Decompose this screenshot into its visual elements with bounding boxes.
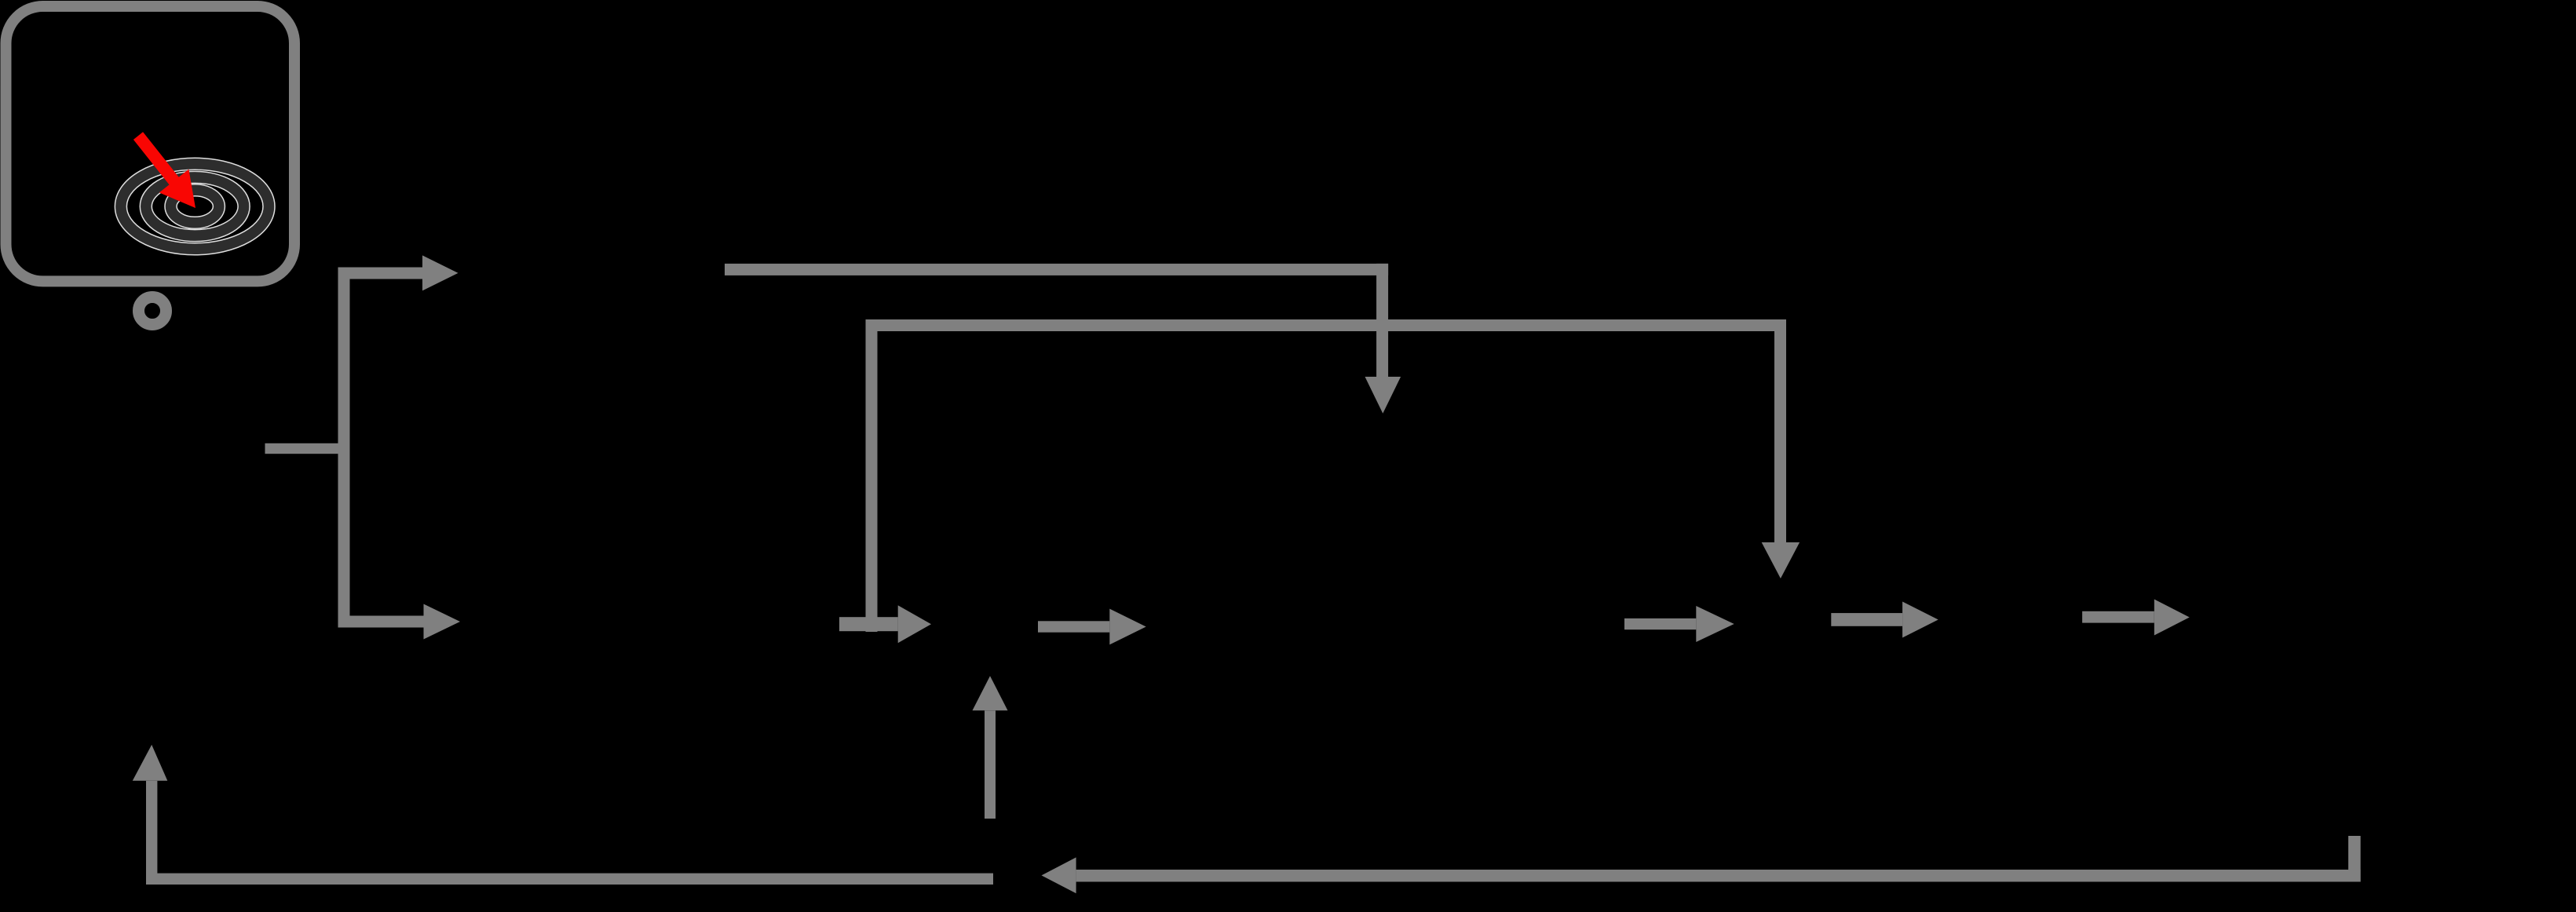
wire: bottom left return horizontal [146, 874, 993, 885]
arrow: center up (into mid row) [973, 676, 1008, 819]
arrow: line A drop [1365, 264, 1401, 414]
icon: red tap arrow [138, 136, 195, 208]
wire: feedback right riser [2348, 836, 2361, 882]
arrow: mid row fourth [2082, 600, 2190, 636]
arrow: mid row first (after node 1) [1038, 609, 1146, 645]
wire: split bracket left stub [265, 443, 350, 454]
icon: ripple ring inner [171, 190, 219, 223]
arrow: bracket top branch [338, 255, 459, 290]
arrow: mid row second [1624, 606, 1734, 642]
icon: ripple ring outer (white edged) [121, 164, 269, 249]
wire: line A horizontal [725, 264, 1388, 275]
wire: line B left drop vertical [866, 319, 878, 632]
arrow: feedback long left [1042, 857, 2361, 893]
wire: line B horizontal [866, 319, 1787, 331]
arrow: enter node 1 (below line B left drop) [839, 605, 931, 643]
arrow: line B right drop [1762, 319, 1800, 578]
arrow: left up (return to user) [133, 745, 168, 885]
icon: app rounded square frame [6, 6, 295, 281]
arrow: mid row third [1831, 602, 1938, 638]
arrow: bracket bottom branch [338, 604, 461, 640]
icon: ripple ring middle [146, 177, 244, 235]
icon: home button dot [139, 297, 166, 325]
wire: split bracket vertical [338, 268, 350, 628]
